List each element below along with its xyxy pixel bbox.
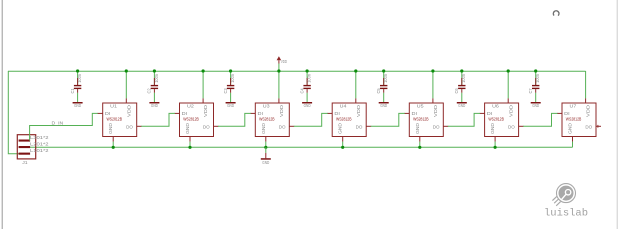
svg-text:J1: J1 xyxy=(22,160,28,165)
svg-text:U4: U4 xyxy=(340,104,347,109)
svg-text:VDD: VDD xyxy=(586,104,591,117)
svg-text:100n: 100n xyxy=(383,73,388,82)
U7 DO open end marker xyxy=(597,125,599,128)
wire U6 VDD pin to bus xyxy=(507,71,509,98)
junction cap at x=154.4 on VDD bus xyxy=(153,69,156,72)
svg-text:DI: DI xyxy=(487,111,493,116)
U5 pin DO stub xyxy=(443,125,448,127)
svg-text:100n: 100n xyxy=(77,73,82,82)
svg-text:C5: C5 xyxy=(376,88,381,94)
junction VDD drop xyxy=(354,69,357,72)
capacitor C6 xyxy=(454,71,466,94)
luislab logo xyxy=(544,184,588,220)
svg-text:U2: U2 xyxy=(187,104,194,109)
svg-text:DO: DO xyxy=(203,124,210,129)
wire U1 DO to U2 DI xyxy=(141,113,175,126)
svg-text:C2: C2 xyxy=(147,88,152,94)
supply symbol VDD xyxy=(277,56,287,64)
ground below C3 xyxy=(226,102,236,108)
junction cap at x=77.6 on VDD bus xyxy=(76,69,79,72)
IC U7 WS2812B xyxy=(562,103,596,137)
svg-text:VDD: VDD xyxy=(281,59,287,64)
wire VDD symbol to bus xyxy=(278,64,280,72)
IC U2 WS2812B xyxy=(180,103,214,137)
capacitor C3 xyxy=(223,71,235,93)
wire U4 VDD pin to bus xyxy=(355,71,357,98)
connector J1 xyxy=(17,135,35,159)
wire U4 GND pin to gnd bus xyxy=(342,142,344,148)
U3 pin DO stub xyxy=(289,125,294,127)
svg-text:L301*2: L301*2 xyxy=(30,135,49,140)
svg-text:DO: DO xyxy=(508,124,515,129)
svg-text:DO: DO xyxy=(279,124,286,129)
capacitor C7 xyxy=(528,71,540,94)
wire C3 to ground xyxy=(230,93,232,102)
J1 pin 1 xyxy=(19,153,31,155)
svg-text:DI: DI xyxy=(564,111,570,116)
junction VDD drop xyxy=(507,69,510,72)
capacitor C5 xyxy=(376,71,388,94)
IC U6 WS2812B xyxy=(485,103,519,137)
svg-text:luislab: luislab xyxy=(544,207,588,219)
U7 pin DI stub xyxy=(557,112,562,114)
U6 pin GND stub xyxy=(494,137,496,142)
capacitor C2 xyxy=(147,71,159,94)
U7 pin GND stub xyxy=(572,137,574,142)
wire U1 GND pin to gnd bus xyxy=(112,142,114,148)
junction GND drop xyxy=(341,146,344,149)
wire C1 to ground xyxy=(77,93,79,102)
junction VDD drop xyxy=(277,69,280,72)
U4 pin VDD stub xyxy=(355,98,357,103)
capacitor C4 xyxy=(299,71,311,94)
wire U7 GND pin to gnd bus xyxy=(572,142,574,148)
ground below C7 xyxy=(531,102,541,108)
svg-text:100n: 100n xyxy=(154,73,159,82)
svg-text:GND: GND xyxy=(415,122,420,134)
svg-text:GND: GND xyxy=(74,103,81,108)
svg-text:DO: DO xyxy=(356,124,363,129)
U5 pin GND stub xyxy=(419,137,421,142)
svg-text:GND: GND xyxy=(458,103,465,108)
svg-text:DI: DI xyxy=(334,111,340,116)
svg-text:U7: U7 xyxy=(570,104,577,109)
wire U1 VDD pin to bus xyxy=(125,71,127,98)
wire U7 VDD pin to bus xyxy=(585,71,587,98)
svg-text:100n: 100n xyxy=(307,73,312,82)
svg-text:C4: C4 xyxy=(299,88,304,94)
U7 pin VDD stub xyxy=(585,98,587,103)
junction GND drop xyxy=(112,146,115,149)
wire VDD to J1 pin 3 xyxy=(8,71,20,154)
ground below C5 xyxy=(379,102,389,108)
svg-text:U6: U6 xyxy=(492,104,499,109)
junction cap at x=535.7 on VDD bus xyxy=(534,69,537,72)
svg-text:WS2812B: WS2812B xyxy=(259,117,275,122)
ground below C1 xyxy=(73,102,83,108)
junction VDD drop xyxy=(125,69,128,72)
svg-text:L101*2: L101*2 xyxy=(30,148,49,153)
junction cap at x=461.8 on VDD bus xyxy=(460,69,463,72)
junction cap at x=307.1 on VDD bus xyxy=(306,69,309,72)
wire C4 to ground xyxy=(306,93,308,102)
U6 pin DI stub xyxy=(480,112,485,114)
svg-text:DI: DI xyxy=(258,111,264,116)
wire central ground stub xyxy=(265,147,267,153)
junction VDD drop xyxy=(202,69,205,72)
svg-text:DO: DO xyxy=(433,124,440,129)
svg-text:100n: 100n xyxy=(461,73,466,82)
svg-text:GND: GND xyxy=(227,103,234,108)
svg-text:GND: GND xyxy=(304,103,311,108)
svg-text:GND: GND xyxy=(338,122,343,134)
U1 pin DO stub xyxy=(137,125,142,127)
junction GND drop xyxy=(418,146,421,149)
U4 pin GND stub xyxy=(342,137,344,142)
svg-text:VDD: VDD xyxy=(356,104,361,117)
svg-text:VDD: VDD xyxy=(126,104,131,117)
junction VDD drop xyxy=(431,69,434,72)
IC U5 WS2812B xyxy=(409,103,443,137)
U3 pin GND stub xyxy=(265,137,267,142)
wire U5 VDD pin to bus xyxy=(432,71,434,98)
wire U5 DO to U6 DI xyxy=(448,113,480,126)
svg-text:DI: DI xyxy=(105,111,111,116)
svg-text:DO: DO xyxy=(126,124,133,129)
U1 pin GND stub xyxy=(112,137,114,142)
svg-text:DI: DI xyxy=(412,111,418,116)
J1 pin 3 xyxy=(19,140,31,142)
ground below C4 xyxy=(302,102,312,108)
ground below C2 xyxy=(149,102,159,108)
wire U2 GND pin to gnd bus xyxy=(189,142,191,148)
U2 pin GND stub xyxy=(189,137,191,142)
junction cap at x=230.6 on VDD bus xyxy=(229,69,232,72)
J1 pin 2 xyxy=(19,146,31,148)
U1 pin DI stub xyxy=(98,112,103,114)
wire U3 VDD pin to bus xyxy=(278,71,280,98)
svg-text:DO: DO xyxy=(585,124,592,129)
wire C5 to ground xyxy=(383,93,385,102)
IC U3 WS2812B xyxy=(255,103,289,137)
U5 pin VDD stub xyxy=(432,98,434,103)
junction GND drop xyxy=(264,146,267,149)
svg-text:C7: C7 xyxy=(528,88,533,94)
capacitor C1 xyxy=(70,71,82,94)
wire C7 to ground xyxy=(535,93,537,102)
svg-text:L201*2: L201*2 xyxy=(30,141,49,146)
U7 pin DO stub xyxy=(596,125,601,127)
wire C2 to ground xyxy=(153,93,155,102)
svg-text:WS2812B: WS2812B xyxy=(488,117,504,122)
svg-text:GND: GND xyxy=(185,122,190,134)
svg-text:C3: C3 xyxy=(223,88,228,94)
wire U6 GND pin to gnd bus xyxy=(494,142,496,148)
wire U5 GND pin to gnd bus xyxy=(419,142,421,148)
svg-text:U3: U3 xyxy=(263,104,270,109)
svg-text:U5: U5 xyxy=(417,104,424,109)
cursor glyph xyxy=(553,11,559,16)
svg-text:GND: GND xyxy=(490,122,495,134)
U6 pin VDD stub xyxy=(507,98,509,103)
wire U2 VDD pin to bus xyxy=(202,71,204,98)
svg-text:GND: GND xyxy=(567,122,572,134)
svg-text:C6: C6 xyxy=(454,88,459,94)
wire C6 to ground xyxy=(461,93,463,102)
svg-text:WS2812B: WS2812B xyxy=(183,117,199,122)
svg-text:WS2812B: WS2812B xyxy=(413,117,429,122)
wire U3 DO to U4 DI xyxy=(294,113,328,126)
svg-text:C1: C1 xyxy=(70,88,75,94)
svg-text:DI: DI xyxy=(182,111,188,116)
junction cap at x=383.7 on VDD bus xyxy=(382,69,385,72)
svg-text:WS2812B: WS2812B xyxy=(107,117,123,122)
svg-text:U1: U1 xyxy=(110,104,117,109)
U2 pin VDD stub xyxy=(202,98,204,103)
svg-text:GND: GND xyxy=(532,103,539,108)
wire GND bus xyxy=(28,146,573,148)
U5 pin DI stub xyxy=(404,112,409,114)
svg-text:VDD: VDD xyxy=(508,104,513,117)
wire U4 DO to U5 DI xyxy=(371,113,405,126)
wire net D_IN xyxy=(30,113,98,140)
IC U4 WS2812B xyxy=(332,103,366,137)
ground below C6 xyxy=(457,102,467,108)
svg-text:GND: GND xyxy=(108,122,113,134)
svg-text:VDD: VDD xyxy=(433,104,438,117)
svg-text:GND: GND xyxy=(380,103,387,108)
svg-text:D_IN: D_IN xyxy=(52,120,64,125)
U3 pin DI stub xyxy=(250,112,255,114)
junction GND drop xyxy=(494,146,497,149)
wire VDD bus xyxy=(8,70,586,72)
svg-text:GND: GND xyxy=(262,160,269,165)
svg-text:VDD: VDD xyxy=(203,104,208,117)
junction GND drop xyxy=(188,146,191,149)
svg-text:100n: 100n xyxy=(535,73,540,82)
U2 pin DO stub xyxy=(214,125,219,127)
U3 pin VDD stub xyxy=(278,98,280,103)
wire U2 DO to U3 DI xyxy=(218,113,251,126)
svg-text:GND: GND xyxy=(261,122,266,134)
svg-text:VDD: VDD xyxy=(279,104,284,117)
IC U1 WS2812B xyxy=(103,103,137,137)
svg-text:GND: GND xyxy=(151,103,158,108)
wire U3 GND pin to gnd bus xyxy=(265,142,267,148)
U4 pin DO stub xyxy=(366,125,371,127)
svg-text:WS2812B: WS2812B xyxy=(566,117,582,122)
U1 pin VDD stub xyxy=(125,98,127,103)
U4 pin DI stub xyxy=(327,112,332,114)
svg-text:WS2812B: WS2812B xyxy=(336,117,352,122)
U6 pin DO stub xyxy=(519,125,524,127)
svg-text:100n: 100n xyxy=(230,73,235,82)
ground symbol GND center xyxy=(261,153,271,165)
wire U6 DO to U7 DI xyxy=(523,113,557,126)
U2 pin DI stub xyxy=(175,112,180,114)
